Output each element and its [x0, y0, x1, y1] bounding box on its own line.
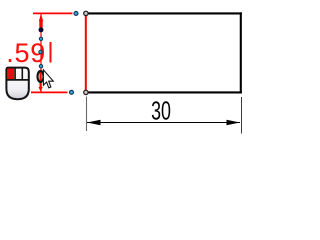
witness line right (gray) — [241, 97, 243, 134]
dimension line for 30 — [87, 122, 240, 124]
cursor icon: small dimension glyph (dark blob) — [38, 71, 44, 82]
dimension arrowhead right — [227, 120, 241, 126]
node: cyan dot above cursor — [39, 65, 42, 68]
cursor icon: pointer arrow — [43, 70, 53, 88]
text caret — [50, 42, 52, 63]
node: cyan extension anchor top — [74, 11, 78, 15]
node: cyan handle dot middle (over the 9) — [39, 50, 42, 53]
mouse button dividers — [7, 79, 29, 81]
wire: red vertical dimension line at x=41 — [40, 14, 42, 92]
rectangle right edge — [240, 12, 242, 93]
red dimension arrow pointing up — [39, 14, 43, 28]
witness line left (gray) — [86, 97, 88, 132]
mouse left button (red, pressed) — [7, 69, 14, 80]
red dimension arrow pointing down — [39, 72, 43, 92]
node: cyan handle dot upper — [39, 37, 42, 40]
node: dark blue endpoint dot on dimension line — [39, 27, 44, 32]
wire: bottom red extension line — [31, 91, 68, 93]
node: gray sketch vertex top-left — [84, 11, 88, 15]
rectangle bottom edge — [85, 91, 242, 93]
rectangle left edge (selected, red) — [85, 12, 87, 93]
node: gray sketch vertex bottom-left — [84, 90, 88, 94]
node: cyan extension anchor bottom — [70, 90, 74, 94]
svg-text:30: 30 — [151, 96, 171, 125]
dimension arrowhead left — [87, 120, 101, 126]
wire: top red extension line — [33, 12, 73, 14]
rectangle top edge — [85, 12, 242, 14]
mouse icon body — [6, 68, 28, 100]
